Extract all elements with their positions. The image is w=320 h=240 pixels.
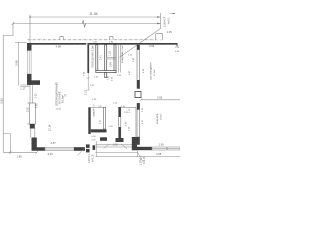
svg-text:4.57: 4.57 xyxy=(51,141,57,145)
dim arrow right line1 xyxy=(157,16,161,18)
wall left lower double line xyxy=(31,129,35,138)
svg-text:0.23: 0.23 xyxy=(36,93,38,98)
ext line right wing xyxy=(137,150,139,157)
svg-text:3.96: 3.96 xyxy=(149,44,155,48)
svg-text:0.90: 0.90 xyxy=(110,62,113,67)
interior wall v1 xyxy=(87,45,89,73)
svg-text:3.95: 3.95 xyxy=(157,95,163,99)
top-right annotation leader xyxy=(120,29,161,58)
interior wall v5 xyxy=(119,45,121,73)
svg-text:3.93: 3.93 xyxy=(0,98,3,104)
wall bottom window W3 xyxy=(45,148,74,151)
dim slash left line2 xyxy=(12,22,14,25)
dimension 11.36 top line xyxy=(30,13,161,43)
eave bump 1 xyxy=(60,37,64,40)
wall thin double below junction xyxy=(30,85,32,103)
svg-text:4.68: 4.68 xyxy=(156,152,162,156)
svg-text:ПОМЕЩЕНИЕ 5.2м²: ПОМЕЩЕНИЕ 5.2м² xyxy=(91,45,94,68)
bottom dim line B xyxy=(96,155,181,157)
svg-text:3.98: 3.98 xyxy=(14,60,18,66)
wall bottom segment xyxy=(74,147,85,151)
dimension second line xyxy=(13,23,161,25)
wall seg below W2 xyxy=(30,124,35,129)
window W5 xyxy=(168,147,181,150)
svg-text:4.98: 4.98 xyxy=(56,44,62,48)
svg-text:61.3м²: 61.3м² xyxy=(61,95,65,103)
wall left below window xyxy=(27,74,32,85)
eave bump 3 right xyxy=(156,34,163,40)
column square xyxy=(135,92,141,98)
junction block xyxy=(32,80,41,85)
interior wall v2 xyxy=(96,45,98,71)
svg-text:1.35: 1.35 xyxy=(167,30,173,34)
vestibule left room xyxy=(88,107,90,134)
wall top xyxy=(27,43,86,45)
vestibule corner block right xyxy=(132,137,137,150)
window W4 xyxy=(152,147,167,150)
svg-text:1.17: 1.17 xyxy=(20,86,26,90)
interior partition h2 xyxy=(107,57,116,59)
bottom dim line A xyxy=(96,151,138,153)
svg-text:19.6м²: 19.6м² xyxy=(159,113,162,120)
svg-text:КОМНАТА: КОМНАТА xyxy=(156,113,159,124)
svg-text:17.9м²: 17.9м² xyxy=(153,69,156,76)
break symbol xyxy=(82,21,86,27)
svg-text:ЗАЛ ОЖИДАНИЯ: ЗАЛ ОЖИДАНИЯ xyxy=(150,62,153,80)
svg-text:h=0.15: h=0.15 xyxy=(92,154,95,162)
left extension L line xyxy=(3,24,13,153)
inner face line xyxy=(135,107,137,137)
wall corner bottom-left xyxy=(32,138,46,151)
door tick diagonals xyxy=(104,144,128,149)
svg-text:0.38: 0.38 xyxy=(37,103,39,108)
svg-text:3.00: 3.00 xyxy=(26,107,29,112)
top-right small arrow xyxy=(170,13,175,15)
svg-text:h=0.15: h=0.15 xyxy=(143,156,146,164)
window W1 left xyxy=(27,51,31,74)
dim 1.85 bottom left xyxy=(3,134,37,154)
svg-text:11.36: 11.36 xyxy=(89,12,97,16)
wall right of hall lower xyxy=(137,103,140,144)
right wing leader xyxy=(138,152,144,162)
svg-text:h=2.1: h=2.1 xyxy=(167,17,171,24)
svg-text:±0.00: ±0.00 xyxy=(56,109,62,111)
vestibule bottom opening xyxy=(96,145,133,147)
dim dot left line1 xyxy=(29,16,31,18)
ext line entrance xyxy=(95,141,97,157)
svg-text:1.85: 1.85 xyxy=(17,155,23,159)
dim arrow right line2 xyxy=(157,23,161,25)
svg-text:КЛАДОВАЯ 2.6м²: КЛАДОВАЯ 2.6м² xyxy=(121,45,124,63)
wall left upper segment xyxy=(27,43,32,51)
entrance blocks xyxy=(86,144,90,148)
svg-text:1.96: 1.96 xyxy=(113,142,119,146)
svg-text:2.41: 2.41 xyxy=(100,55,103,60)
svg-text:3.33: 3.33 xyxy=(48,152,54,156)
door opening v1 xyxy=(87,73,90,90)
eave bump 2 xyxy=(110,37,113,40)
tilted cross xyxy=(64,94,67,97)
svg-text:ТАМБУР 1.9: ТАМБУР 1.9 xyxy=(93,104,96,117)
interior wall v4 xyxy=(114,45,116,73)
dim 3.98 vertical xyxy=(15,43,27,86)
dashed eave line xyxy=(28,39,163,41)
window W2 left lower xyxy=(28,103,36,124)
dim 3.95 right xyxy=(141,99,180,101)
right wing bottom wall xyxy=(137,147,152,150)
vestibule right room xyxy=(118,106,136,108)
svg-text:1.90: 1.90 xyxy=(159,143,165,147)
interior wall stub below h1 xyxy=(105,73,107,78)
interior wall v3 xyxy=(105,45,107,71)
svg-text:1.20: 1.20 xyxy=(109,51,112,56)
svg-text:2.10: 2.10 xyxy=(84,90,87,95)
interior wall h1 xyxy=(96,71,116,73)
svg-text:12.14: 12.14 xyxy=(49,124,52,131)
wall top right end tick xyxy=(176,43,179,47)
svg-text:2.26×0.9: 2.26×0.9 xyxy=(163,16,167,27)
entrance leader diagonal xyxy=(78,148,86,156)
wall right of hall upper xyxy=(137,45,140,89)
sill lines left xyxy=(21,85,30,87)
